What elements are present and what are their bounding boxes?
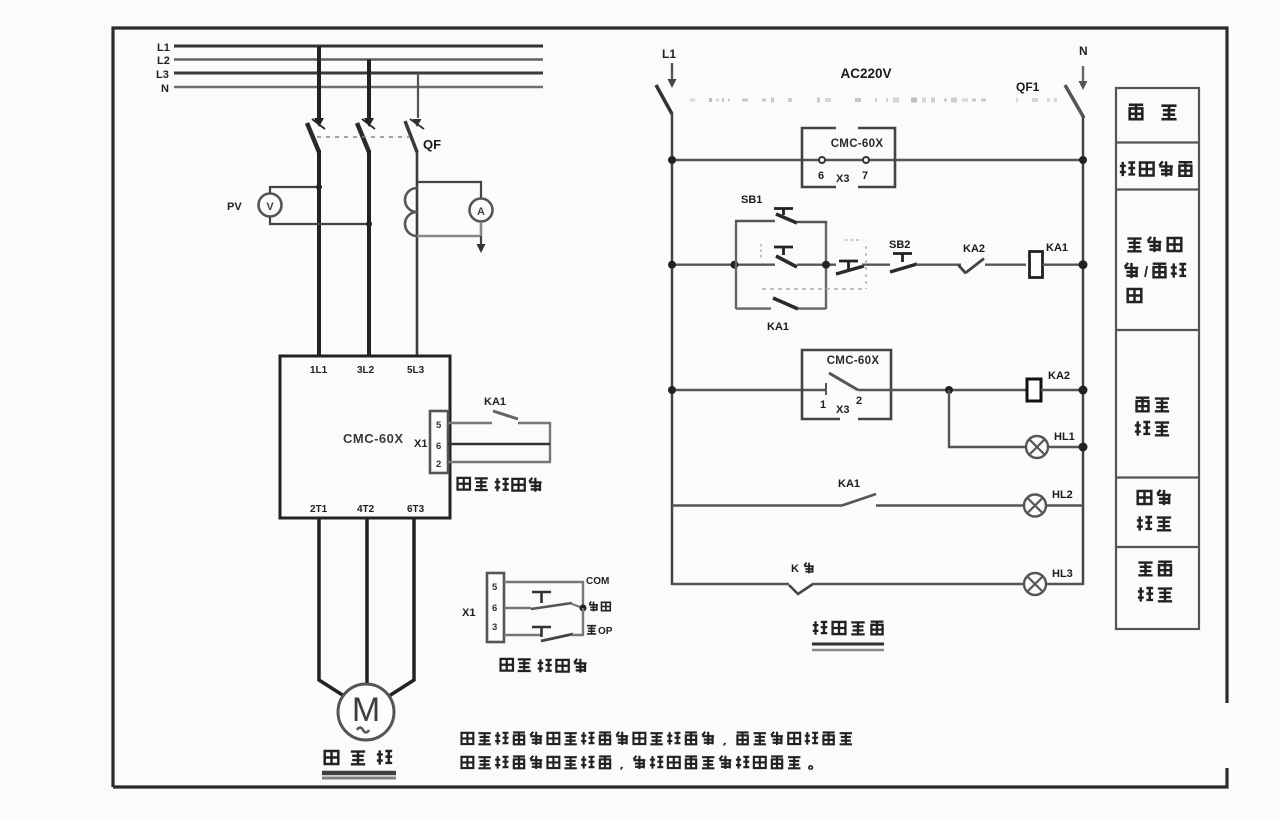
wire CT secondary top [417,182,481,198]
underline control circuit [812,643,884,646]
svg-text:PV: PV [227,201,242,213]
node row3 left [668,386,676,394]
wire T1 to motor [319,518,344,696]
wire HL1 branch [949,390,1026,447]
svg-text:3: 3 [492,622,497,633]
bus L2 [174,58,543,61]
svg-text:KA1: KA1 [838,478,860,490]
node PV-L1 [316,184,322,190]
label running indication [1138,491,1152,504]
svg-text:HL3: HL3 [1052,568,1073,580]
svg-text:X3: X3 [836,173,849,185]
label stop OP [587,626,596,634]
pushbutton SB1 [774,209,793,216]
lamp HL1 [1026,436,1048,458]
voltmeter PV circle [259,194,282,217]
wire PV bottom tap [270,217,369,225]
svg-text:KA1: KA1 [1046,242,1068,254]
contact K stop [789,584,813,594]
svg-text:A: A [477,206,485,218]
caption control circuit [813,621,827,634]
branch SB1 wire [735,220,775,222]
svg-text:6: 6 [818,170,824,182]
parallel bracket right [825,221,827,309]
wire stop to COM rail [572,608,583,635]
svg-text:KA1: KA1 [767,321,789,333]
breaker QF1 right blade [1065,85,1084,118]
wire KA1 to loop [518,423,550,462]
bus L3 [174,72,543,75]
motor M [338,684,394,740]
label soft start/stop control [1127,239,1141,252]
wire row4 to HL2 [876,504,1024,506]
wire stop pin3 [504,634,542,636]
lamp HL3 [1024,573,1046,595]
caption single-node control [458,478,470,490]
svg-text:2T1: 2T1 [310,504,328,515]
svg-text:1: 1 [820,399,826,411]
wire KA2 coil to bus [1041,389,1083,391]
caption dual-node control [501,659,513,671]
label stop indication [1138,563,1152,576]
CMC-60X box row3 [802,350,891,419]
wire row4 [672,504,842,506]
function label column [1116,88,1199,629]
wire CT secondary bottom [417,222,481,236]
pushbutton start actuator [532,592,551,603]
svg-text:AC220V: AC220V [840,66,891,81]
svg-text:QF: QF [423,137,441,152]
terminal 6 [819,157,825,163]
bus L1 [174,45,543,48]
svg-text:6: 6 [492,603,497,614]
svg-text:N: N [1079,44,1088,58]
right bus (control) [1082,116,1085,585]
contact KA2 [958,259,984,274]
wire row5 [672,583,789,585]
wire row1 [672,159,1083,161]
node row2 branch left [731,261,739,269]
wire X1 pin6 [448,443,550,446]
svg-text:CMC-60X: CMC-60X [831,138,884,150]
svg-text:7: 7 [862,170,868,182]
node row3 right [1079,386,1088,395]
node row1 left [668,156,676,164]
node PV-L2 [366,221,372,227]
svg-text:X1: X1 [462,607,475,619]
note line 1 [461,733,473,744]
wire PV top tap [270,187,319,194]
coil KA1 [1030,252,1043,278]
fault contact blade [829,373,858,390]
breaker QF pole 1 [314,118,324,127]
label fault indication [1136,398,1150,412]
node row2 right [1079,260,1088,269]
pushbutton row2 outer [839,261,858,270]
svg-text:SB1: SB1 [741,194,762,206]
wire HL3 to bus [1046,583,1083,585]
label control power [1120,162,1135,176]
svg-text:QF1: QF1 [1016,80,1040,94]
svg-text:OP: OP [598,626,613,637]
svg-text:X1: X1 [414,438,427,450]
coil KA2 [1027,379,1041,401]
terminal block X1 upper [430,411,448,473]
contact KA1 blade [493,411,518,419]
svg-text:5L3: 5L3 [407,365,425,376]
svg-text:4T2: 4T2 [357,504,375,515]
wire coil to bus [1043,264,1084,266]
wire start pin6 [504,607,531,609]
caption main circuit [325,751,339,764]
svg-text:KA2: KA2 [963,243,985,255]
ground arrow [480,236,482,245]
note line 2 [461,757,473,768]
wire row2 from left bus [672,264,775,266]
wire row3 to KA2 coil [858,389,1027,391]
pushbutton row2 middle [774,247,793,255]
svg-text:6T3: 6T3 [407,504,425,515]
CMC-60X box row1 [802,128,895,187]
node dual COM [580,605,587,612]
svg-text:5: 5 [436,420,442,431]
svg-text:L3: L3 [156,69,169,81]
wire T3 to motor [389,518,414,696]
wire pole1 to starter [317,150,321,356]
node row1 right [1079,156,1087,164]
wire L1 drop [317,46,321,118]
wire L2 drop [367,60,371,119]
node row2 branch right [822,261,830,269]
node HL1 right [1079,443,1088,452]
wire X1 pin5 [448,422,492,424]
label fuse [1129,105,1143,119]
wire HL1 to bus [1048,446,1083,448]
linkage dashes row2 [762,288,866,290]
wire HL2 to bus [1046,504,1083,506]
CT TA arcs [405,188,417,236]
node row3 branch [945,386,953,394]
wire X1 pin2 [448,461,551,464]
pushbutton SB2 [893,254,912,263]
svg-text:1L1: 1L1 [310,365,328,376]
svg-text:COM: COM [586,576,609,587]
svg-text:2: 2 [436,459,441,470]
terminal 7 [863,157,869,163]
svg-text:CMC-60X: CMC-60X [827,355,880,367]
lamp HL2 [1024,495,1046,517]
pushbutton stop actuator [532,627,551,637]
svg-text:HL2: HL2 [1052,489,1073,501]
svg-text:L1: L1 [662,47,676,61]
svg-text:M: M [352,691,380,729]
pushbutton start blade [531,603,572,609]
left bus (control) [671,112,674,585]
wire pole3 to starter [416,150,419,356]
pushbutton stop blade [541,634,573,641]
breaker QF pole 3 [413,119,422,127]
wire N arrow [1082,66,1084,82]
svg-text:L2: L2 [157,55,170,67]
svg-text:K: K [791,563,799,575]
contact KA1 hold blade [773,298,798,309]
wire SB2 to KA2 [916,264,961,266]
node row2 left [668,261,676,269]
terminal block X1 lower [487,573,504,642]
svg-text:KA1: KA1 [484,396,506,408]
svg-text:CMC-60X: CMC-60X [343,431,404,446]
wire row3 [672,389,826,391]
svg-text:6: 6 [436,441,441,452]
svg-text:L1: L1 [157,42,170,54]
svg-text:N: N [161,83,169,95]
svg-text:SB2: SB2 [889,239,910,251]
svg-text:X3: X3 [836,404,849,416]
wire L1 arrow [671,63,673,80]
svg-text:3L2: 3L2 [357,365,375,376]
svg-text:HL1: HL1 [1054,431,1075,443]
breaker QF1 linkage dashed [690,98,1057,103]
wire row5 to HL3 [812,583,1024,585]
soft starter CMC-60X box [280,356,450,518]
wire pole2 to starter [367,150,371,356]
breaker QF pole 2 [364,118,374,127]
svg-text:2: 2 [856,395,862,407]
bus N [174,86,543,89]
branch KA1 hold wire [736,307,771,309]
wire KA2 to coil [985,264,1026,266]
ammeter PA circle [470,199,493,222]
parallel bracket left [735,221,737,309]
wire T2 to motor [365,518,369,684]
wire COM [504,582,583,608]
svg-text:V: V [266,201,274,213]
label start [589,602,598,612]
breaker QF1 left blade [656,85,672,114]
underline main circuit [322,771,396,776]
breaker linkage dashed [317,136,410,138]
svg-text:5: 5 [492,582,498,593]
svg-text:KA2: KA2 [1048,370,1070,382]
contact KA1 run [842,494,876,506]
wire L3 drop [417,73,419,118]
